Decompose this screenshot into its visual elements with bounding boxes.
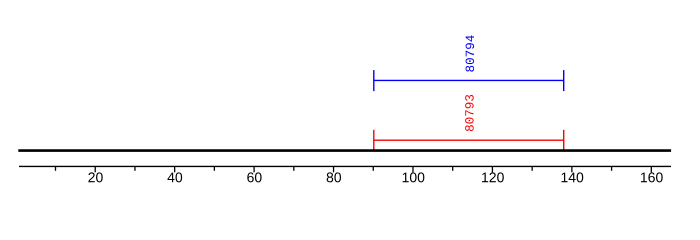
- ruler tick marks: [56, 166, 652, 172]
- ruler label 100: [403, 172, 425, 182]
- ruler label 20: [88, 172, 102, 182]
- sequence line (thick): [18, 149, 671, 152]
- feature 80794 span bar: [374, 70, 564, 91]
- feature 80793 label (rotated): [465, 95, 474, 131]
- ruler label 40: [167, 172, 182, 182]
- ruler label 60: [247, 172, 261, 182]
- feature 80793 span bar: [374, 130, 564, 151]
- ruler axis line: [19, 165, 671, 167]
- ruler label 160: [641, 172, 663, 182]
- ruler label 140: [562, 172, 584, 182]
- feature 80794 label (rotated): [466, 35, 475, 71]
- ruler label 120: [482, 172, 504, 182]
- ruler label 80: [327, 172, 341, 182]
